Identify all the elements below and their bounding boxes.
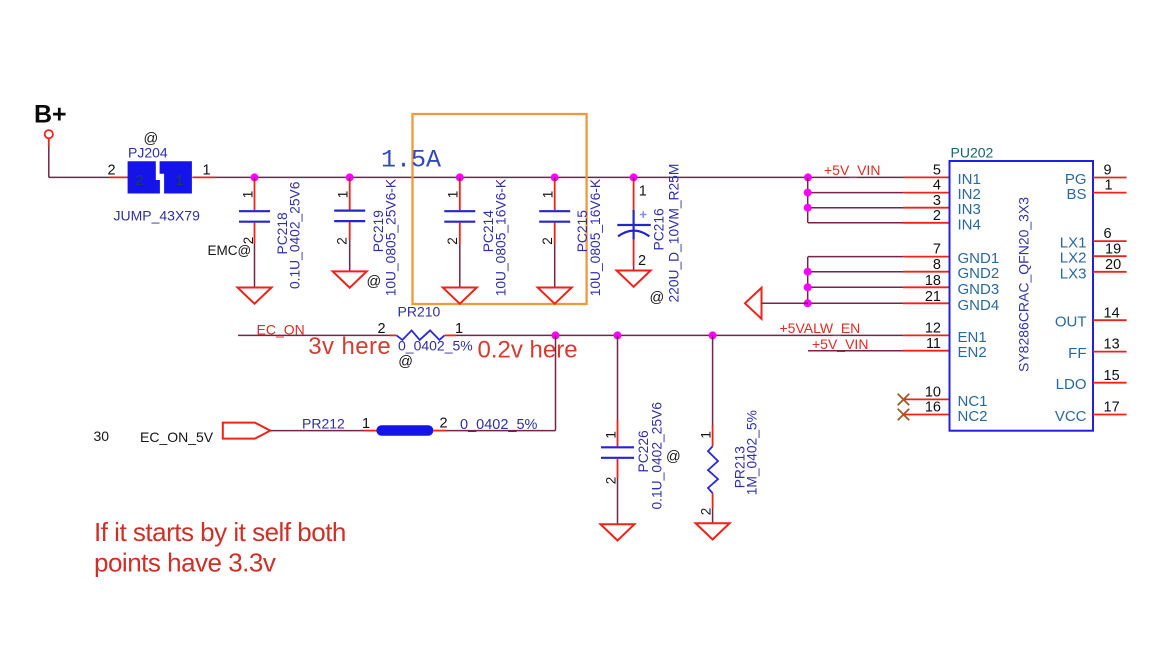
- svg-text:1: 1: [1105, 178, 1113, 194]
- ground PC218: [238, 288, 272, 304]
- svg-text:2: 2: [135, 172, 143, 189]
- resistor PR210: [397, 330, 445, 340]
- svg-text:21: 21: [925, 289, 941, 305]
- orange highlight box: [413, 114, 587, 304]
- pin LX2 stub: [1093, 255, 1127, 257]
- svg-text:11: 11: [926, 336, 941, 352]
- resistor PR213: [698, 335, 718, 523]
- svg-text:16: 16: [925, 400, 941, 416]
- wire IN2 branch: [808, 192, 903, 194]
- svg-text:3: 3: [933, 193, 941, 209]
- svg-text:12: 12: [925, 321, 941, 337]
- svg-text:10: 10: [925, 385, 941, 401]
- wire PR212 to EN1 riser: [446, 430, 556, 432]
- svg-text:1: 1: [336, 191, 351, 199]
- ground PC214: [443, 288, 477, 304]
- svg-text:+5V_VIN: +5V_VIN: [824, 162, 880, 178]
- junction dot PC216: [630, 173, 638, 181]
- svg-text:JUMP_43X79: JUMP_43X79: [114, 208, 201, 224]
- svg-text:2: 2: [335, 237, 350, 245]
- PR210 pin stub 1: [444, 334, 456, 336]
- svg-text:NC2: NC2: [958, 408, 988, 425]
- svg-text:2: 2: [603, 477, 618, 485]
- svg-text:FF: FF: [1068, 345, 1086, 362]
- B+ terminal circle: [45, 130, 53, 138]
- capacitor PC218: [239, 177, 270, 287]
- svg-text:GND4: GND4: [958, 297, 1000, 314]
- svg-text:8: 8: [933, 257, 941, 273]
- wire GND bus vertical: [807, 257, 809, 304]
- svg-text:PR210: PR210: [398, 304, 441, 320]
- wire B+ to PJ204 pin2: [49, 176, 110, 178]
- svg-text:4: 4: [933, 178, 941, 194]
- svg-text:@: @: [398, 354, 413, 370]
- svg-text:B+: B+: [34, 101, 67, 129]
- EC_ON_5V port arrow: [223, 423, 271, 439]
- svg-text:LX3: LX3: [1060, 265, 1087, 282]
- svg-text:OUT: OUT: [1055, 314, 1087, 331]
- pin VCC stub: [1093, 414, 1127, 416]
- ground PR213: [696, 523, 730, 539]
- ground PC215: [538, 288, 572, 304]
- svg-text:If it starts by it self both: If it starts by it self both: [94, 517, 346, 547]
- svg-text:13: 13: [1104, 337, 1120, 353]
- svg-text:points have 3.3v: points have 3.3v: [94, 548, 276, 578]
- svg-text:2: 2: [933, 208, 941, 224]
- svg-text:@: @: [666, 449, 681, 465]
- svg-text:14: 14: [1104, 305, 1120, 321]
- wire PJ204 pin1 stub: [192, 176, 215, 178]
- wire IN3 branch: [808, 207, 903, 209]
- wire GND4 branch: [808, 302, 903, 304]
- jumper PJ204 pad 1: [160, 161, 192, 193]
- svg-text:PC216: PC216: [651, 208, 666, 251]
- svg-text:BS: BS: [1066, 186, 1086, 203]
- svg-text:1: 1: [175, 172, 183, 189]
- pin LX3 stub: [1093, 271, 1127, 273]
- svg-text:18: 18: [925, 273, 941, 289]
- wire EC_ON_5V to PR212: [270, 430, 364, 432]
- pin LX1 stub: [1093, 240, 1127, 242]
- wire IN4 branch: [808, 222, 903, 224]
- ground arrow left: [745, 288, 762, 319]
- NC1 pin stub: [903, 398, 949, 400]
- junction dot EN1/PR213: [709, 331, 717, 339]
- svg-text:GND2: GND2: [958, 265, 1000, 282]
- capacitor PC226: [601, 335, 634, 524]
- svg-text:2: 2: [440, 415, 448, 431]
- svg-text:LDO: LDO: [1056, 376, 1087, 393]
- junction dot IN2: [804, 189, 812, 197]
- svg-text:0_0402_5%: 0_0402_5%: [460, 417, 538, 433]
- resistor PR212 body: [376, 425, 433, 436]
- svg-text:PR212: PR212: [302, 416, 345, 432]
- svg-text:7: 7: [933, 242, 941, 258]
- svg-text:10U_0805_16V6-K: 10U_0805_16V6-K: [494, 178, 509, 296]
- svg-text:1.5A: 1.5A: [381, 146, 441, 175]
- junction dot PC215: [551, 173, 559, 181]
- pin PG stub: [1093, 177, 1127, 179]
- ground PC216: [617, 271, 651, 287]
- capacitor PC214: [444, 177, 475, 287]
- junction dot GND3: [804, 283, 812, 291]
- junction dot IN3: [804, 204, 812, 212]
- svg-text:220U_D_10VM_R25M: 220U_D_10VM_R25M: [666, 164, 681, 303]
- junction dot EN1/PC226: [614, 331, 622, 339]
- capacitor PC215: [539, 177, 570, 287]
- wire GND2 branch: [808, 271, 903, 273]
- junction dot PC214: [456, 173, 464, 181]
- wire EC_ON to PR210: [238, 334, 390, 336]
- pin OUT stub: [1093, 319, 1127, 321]
- svg-text:IN4: IN4: [958, 216, 981, 233]
- svg-text:@: @: [367, 274, 382, 290]
- svg-text:EN2: EN2: [958, 344, 987, 361]
- svg-text:30: 30: [94, 428, 110, 444]
- capacitor PC219: [334, 177, 365, 271]
- svg-text:PJ204: PJ204: [128, 145, 168, 161]
- junction dot PC219: [346, 173, 354, 181]
- svg-text:+5VALW_EN: +5VALW_EN: [780, 320, 861, 336]
- svg-text:0.2v here: 0.2v here: [478, 337, 578, 364]
- capacitor PC216 polarized: [617, 177, 651, 270]
- svg-text:EC_ON_5V: EC_ON_5V: [140, 429, 214, 445]
- pin BS stub: [1093, 192, 1127, 194]
- svg-text:2: 2: [638, 253, 646, 269]
- wire EN1 net: [456, 334, 903, 336]
- svg-text:1: 1: [240, 191, 255, 199]
- svg-text:1: 1: [541, 191, 556, 199]
- svg-text:1: 1: [639, 183, 647, 199]
- NC2 pin stub: [903, 414, 949, 416]
- svg-text:0.1U_0402_25V6: 0.1U_0402_25V6: [288, 181, 303, 289]
- wire ground arrow to GND bus: [762, 302, 809, 304]
- svg-text:1: 1: [698, 431, 713, 439]
- svg-text:9: 9: [1104, 163, 1112, 179]
- svg-text:SY8286CRAC_QFN20_3X3: SY8286CRAC_QFN20_3X3: [1016, 197, 1032, 372]
- jumper PJ204 pad 2: [128, 161, 160, 193]
- wire main +5V bus: [215, 176, 903, 178]
- svg-text:2: 2: [445, 237, 460, 245]
- svg-text:17: 17: [1104, 400, 1120, 416]
- svg-text:@: @: [650, 290, 665, 306]
- svg-text:2: 2: [108, 163, 116, 179]
- ground PC219: [333, 271, 367, 287]
- svg-text:6: 6: [1104, 226, 1112, 242]
- svg-text:5: 5: [933, 163, 941, 179]
- pin LDO stub: [1093, 382, 1127, 384]
- svg-text:0_0402_5%: 0_0402_5%: [398, 338, 473, 354]
- wire GND3 branch: [808, 286, 903, 288]
- wire EN2: [808, 350, 903, 352]
- svg-text:1: 1: [362, 416, 370, 432]
- svg-text:20: 20: [1105, 257, 1121, 273]
- svg-text:0.1U_0402_25V6: 0.1U_0402_25V6: [649, 402, 664, 510]
- wire IN bus vertical: [807, 177, 809, 222]
- svg-text:10U_0805_25V6-K: 10U_0805_25V6-K: [384, 178, 399, 296]
- PR212 pin stub 2: [433, 430, 446, 432]
- no-connect X NC1: [898, 394, 910, 406]
- wire riser to EN1: [555, 335, 557, 430]
- svg-text:GND3: GND3: [958, 281, 1000, 298]
- svg-text:EMC@: EMC@: [208, 243, 252, 258]
- wire IN1 pin stub: [903, 176, 950, 178]
- junction dot GND4: [804, 299, 812, 307]
- svg-text:1M_0402_5%: 1M_0402_5%: [745, 410, 760, 495]
- svg-text:1: 1: [446, 191, 461, 199]
- wire GND1 branch: [808, 256, 903, 258]
- pin FF stub: [1093, 351, 1127, 353]
- junction dot EN1/PR212: [552, 331, 560, 339]
- svg-text:15: 15: [1104, 368, 1120, 384]
- svg-text:1: 1: [203, 163, 211, 179]
- op IC PU202 box: [950, 161, 1094, 431]
- svg-text:10U_0805_16V6-K: 10U_0805_16V6-K: [588, 178, 603, 296]
- svg-text:3v here: 3v here: [308, 333, 391, 360]
- svg-text:PU202: PU202: [951, 144, 994, 160]
- svg-text:LX2: LX2: [1060, 250, 1087, 267]
- junction dot IN bus top: [804, 173, 812, 181]
- junction dot PC218: [251, 173, 259, 181]
- svg-text:VCC: VCC: [1055, 408, 1087, 425]
- no-connect X NC2: [898, 409, 910, 421]
- wire B+ vertical: [48, 138, 50, 146]
- ground PC226: [601, 524, 635, 540]
- svg-text:2: 2: [540, 237, 555, 245]
- svg-text:2: 2: [698, 508, 713, 516]
- svg-text:1: 1: [455, 321, 463, 337]
- svg-text:+5V_VIN: +5V_VIN: [812, 336, 868, 352]
- junction dot GND2: [804, 268, 812, 276]
- svg-text:1: 1: [603, 431, 618, 439]
- EN1 pin stub: [903, 334, 950, 336]
- svg-text:19: 19: [1105, 241, 1121, 257]
